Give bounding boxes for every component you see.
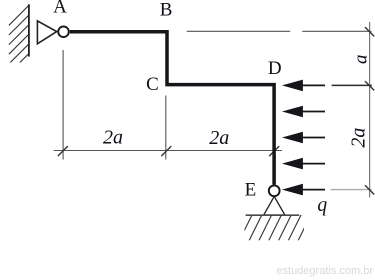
- wall line at A: [28, 4, 30, 56]
- pin support triangle at A: [37, 21, 56, 44]
- extension line from A down: [62, 50, 64, 160]
- hinge circle at E: [269, 185, 280, 196]
- svg-text:2a: 2a: [209, 127, 229, 149]
- wall hatching at A: [9, 5, 29, 73]
- ground hatching at E: [239, 214, 311, 241]
- load arrow 1 at D: [282, 80, 325, 92]
- tick at D level right: [365, 81, 374, 90]
- svg-text:B: B: [160, 0, 173, 20]
- right vertical dimension line: [369, 22, 371, 198]
- horizontal dimension line 2a+2a: [54, 150, 282, 152]
- top extension line from B level to right: [187, 30, 290, 32]
- top extension line segment 2: [302, 30, 371, 32]
- tick at top right: [365, 27, 374, 36]
- svg-text:2a: 2a: [347, 128, 369, 148]
- support triangle at E: [264, 196, 285, 215]
- svg-text:E: E: [245, 180, 257, 201]
- load arrow 3: [282, 132, 325, 144]
- ground line at E: [246, 214, 300, 216]
- svg-text:estudegratis.com.br: estudegratis.com.br: [276, 265, 373, 277]
- svg-text:2a: 2a: [103, 127, 123, 149]
- svg-text:D: D: [268, 58, 282, 79]
- load arrow 4: [282, 158, 325, 170]
- extension line from C down: [165, 96, 167, 160]
- svg-text:C: C: [146, 74, 159, 95]
- svg-text:q: q: [317, 195, 327, 216]
- load arrow 2: [282, 106, 325, 118]
- tick at D-E extension: [269, 146, 279, 156]
- svg-text:A: A: [53, 0, 67, 18]
- frame member A-B-C-D-E: [70, 32, 274, 185]
- tick at E level right: [365, 185, 374, 194]
- hinge circle at A: [58, 26, 69, 37]
- svg-text:a: a: [350, 55, 371, 65]
- tick at A extension: [58, 146, 68, 156]
- extension line at E level right: [331, 189, 372, 191]
- tick at C extension: [161, 146, 171, 156]
- extension line at D level right: [332, 84, 372, 86]
- load arrow 5 at E: [282, 184, 325, 196]
